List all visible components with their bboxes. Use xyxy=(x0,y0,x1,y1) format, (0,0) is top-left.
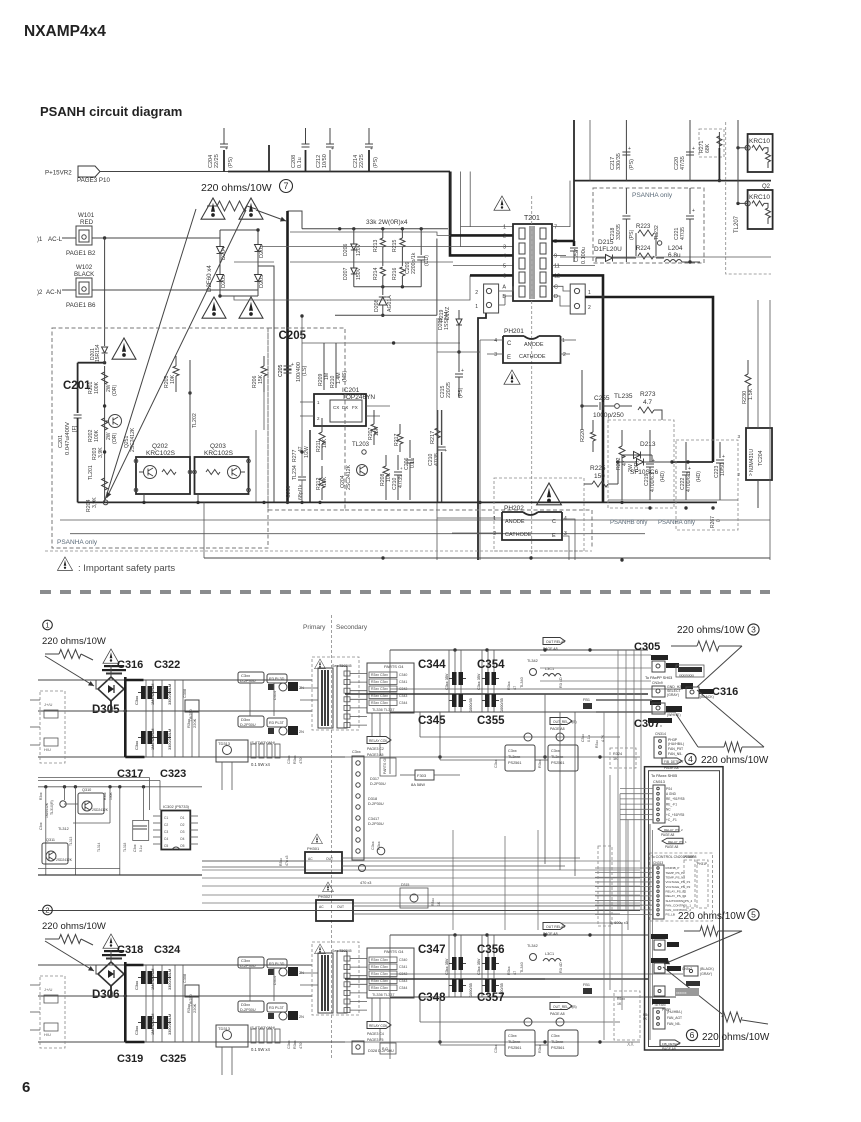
svg-text:1000/35: 1000/35 xyxy=(469,698,473,712)
svg-text:W102: W102 xyxy=(76,264,93,271)
svg-text:(BLACK): (BLACK) xyxy=(700,967,714,971)
svg-text:TEMP_PS_N2: TEMP_PS_N2 xyxy=(666,876,686,880)
svg-text:68p/1k: 68p/1k xyxy=(298,484,304,500)
warning triangle xyxy=(103,649,119,663)
wire diagonal down xyxy=(663,967,722,1014)
svg-text:TL201: TL201 xyxy=(88,465,94,480)
svg-text:RED: RED xyxy=(80,219,94,226)
capacitor C221 47/35 xyxy=(689,188,691,214)
wire bridge top xyxy=(220,229,258,231)
wire bus upper xyxy=(38,679,312,681)
wire parts box drops xyxy=(371,998,373,1025)
svg-text:Q202: Q202 xyxy=(152,443,168,450)
wire column pair xyxy=(437,410,439,502)
wire feeder horizontals xyxy=(560,922,622,924)
transistor TL310 xyxy=(60,801,66,807)
svg-text:PAGE3 F5: PAGE3 F5 xyxy=(367,1038,384,1042)
capacitor bank secondary 2 xyxy=(452,979,457,992)
resistor 220 ohms channel 1 xyxy=(59,650,81,659)
wire vertical xyxy=(581,370,583,406)
flag OUT_RELAY xyxy=(543,923,565,930)
warning triangle transformer xyxy=(315,944,326,954)
svg-text:4: 4 xyxy=(494,338,497,344)
svg-text:D-2P30U: D-2P30U xyxy=(368,802,384,806)
svg-text:TD313: TD313 xyxy=(218,741,231,746)
svg-text:1000/35: 1000/35 xyxy=(469,983,473,997)
svg-text:2SD2412K: 2SD2412K xyxy=(56,858,73,862)
svg-text:7: 7 xyxy=(554,225,557,231)
connector To PS upper xyxy=(651,934,668,939)
svg-text:D3xx: D3xx xyxy=(241,1002,250,1007)
wire bus lower xyxy=(38,756,345,758)
svg-text:(HU/HB/L): (HU/HB/L) xyxy=(668,742,684,746)
svg-text:220 ohms/10W: 220 ohms/10W xyxy=(42,636,106,647)
svg-text:C348: C348 xyxy=(418,992,446,1004)
warning triangle xyxy=(239,198,263,219)
svg-text:TL235: TL235 xyxy=(614,393,633,400)
svg-text:47u x3: 47u x3 xyxy=(285,855,289,866)
wire secondary riser xyxy=(389,650,391,712)
svg-text:(PS): (PS) xyxy=(228,157,234,168)
svg-text:1: 1 xyxy=(45,621,49,630)
wire driver rails xyxy=(440,1044,505,1046)
svg-text:TL3xxx: TL3xxx xyxy=(551,755,563,759)
svg-text:TD313: TD313 xyxy=(218,1026,231,1031)
svg-text:R3 4D: R3 4D xyxy=(559,677,563,688)
svg-text:PAGE A8: PAGE A8 xyxy=(665,845,678,849)
svg-text:+: + xyxy=(692,208,695,214)
svg-text:D-2P30U: D-2P30U xyxy=(370,782,386,786)
svg-text:(HD): (HD) xyxy=(660,471,666,482)
svg-text:TL3xxx: TL3xxx xyxy=(551,1040,563,1044)
svg-text:C317: C317 xyxy=(117,768,143,780)
wire node xyxy=(437,351,480,353)
svg-text:(HD): (HD) xyxy=(696,471,702,482)
connector A-B left xyxy=(484,284,499,313)
warning triangle PH302 xyxy=(323,882,334,892)
svg-text:E: E xyxy=(552,533,556,539)
svg-text:220 ohms/10W: 220 ohms/10W xyxy=(702,1032,770,1043)
svg-text:2SC2412K: 2SC2412K xyxy=(130,427,136,452)
svg-text:C3: C3 xyxy=(164,830,168,834)
transistor TL342 xyxy=(530,954,537,961)
wire bus middle xyxy=(38,995,312,997)
svg-text:C3xx 35V: C3xx 35V xyxy=(477,673,481,690)
svg-text:9: 9 xyxy=(554,253,557,259)
left dashed box xyxy=(40,976,65,1048)
svg-text:120V: 120V xyxy=(356,243,362,256)
wire thick C201 top xyxy=(78,362,105,364)
svg-text:R3xx C3xx: R3xx C3xx xyxy=(371,986,388,990)
wire D213 out thick xyxy=(672,461,713,463)
svg-text:W101: W101 xyxy=(78,212,95,219)
svg-text:RE_-F1: RE_-F1 xyxy=(666,802,677,806)
svg-text:R214: R214 xyxy=(373,267,379,280)
svg-text:C3xx: C3xx xyxy=(581,734,585,742)
svg-text:C3xx: C3xx xyxy=(134,741,139,750)
svg-text:: Important safety parts: : Important safety parts xyxy=(78,563,175,574)
transistor block KRC10 upper xyxy=(748,134,773,172)
svg-text:C3xx 35V: C3xx 35V xyxy=(445,958,449,975)
svg-text:5K: 5K xyxy=(643,1017,648,1021)
ferrite FB1 xyxy=(583,703,592,709)
svg-text:R3xx: R3xx xyxy=(507,681,511,690)
svg-text:6: 6 xyxy=(503,273,506,279)
svg-text:Primary: Primary xyxy=(303,624,326,631)
svg-text:To PAxxx SH05: To PAxxx SH05 xyxy=(651,774,677,778)
dashed box PH31P xyxy=(697,860,708,908)
wire diagonal to C201 area xyxy=(105,209,196,500)
transformer windings xyxy=(318,668,333,728)
svg-text:2200p/1k: 2200p/1k xyxy=(411,252,417,274)
resistor array 0.1 5W x4 xyxy=(251,1029,256,1043)
node P+15VR2 flag xyxy=(78,166,100,177)
wire feeders left of box xyxy=(603,760,605,1040)
svg-text:0. 600u x3: 0. 600u x3 xyxy=(610,921,628,925)
svg-text:C201: C201 xyxy=(58,435,64,448)
svg-text:4: 4 xyxy=(688,754,693,764)
svg-text:C325: C325 xyxy=(160,1053,186,1065)
svg-text:R3xx C3xx: R3xx C3xx xyxy=(371,687,388,691)
svg-text:4.7: 4.7 xyxy=(643,399,652,406)
svg-text:R273: R273 xyxy=(640,391,656,398)
svg-text:C341: C341 xyxy=(399,965,407,969)
svg-text:220 ohms/10W: 220 ohms/10W xyxy=(42,921,106,932)
wire primary net 4 xyxy=(234,275,470,300)
svg-text:330/35: 330/35 xyxy=(616,224,622,240)
svg-text:AC-L: AC-L xyxy=(48,236,63,243)
svg-text:4.7K: 4.7K xyxy=(601,734,605,742)
wire B pin xyxy=(499,304,505,306)
wire driver rails xyxy=(440,759,505,761)
svg-text:C: C xyxy=(507,341,512,347)
dashed box lower left xyxy=(614,991,640,1040)
resistor 220 ohms zigzag xyxy=(217,201,247,211)
label To PA SH04 xyxy=(648,718,672,723)
svg-text:C3xx: C3xx xyxy=(551,1034,560,1038)
arrow to rectifier xyxy=(45,941,94,971)
wire control verticals xyxy=(45,787,47,875)
driver block right xyxy=(556,733,564,741)
svg-text:R3xx: R3xx xyxy=(431,898,435,906)
svg-text:FAN_P5T: FAN_P5T xyxy=(668,747,684,751)
wire bridge tap to transformer nets xyxy=(234,261,274,263)
wire control rails xyxy=(38,777,150,779)
transistor block Q310 xyxy=(78,793,104,814)
svg-text:D315: D315 xyxy=(401,883,409,887)
svg-text:+: + xyxy=(688,466,691,472)
wire right verticals from page top xyxy=(573,120,575,241)
svg-text:RELAY_PS_P4: RELAY_PS_P4 xyxy=(666,894,687,898)
svg-text:O4: O4 xyxy=(180,837,185,841)
driver block left xyxy=(524,1018,532,1026)
transistor upper xyxy=(279,683,287,691)
svg-text:C316: C316 xyxy=(117,659,143,671)
flag RELAY_PS_1 xyxy=(662,838,683,844)
svg-text:C3xx: C3xx xyxy=(241,958,250,963)
wire CN513 feeders xyxy=(619,794,621,910)
resistor 220 ohms channel 2 xyxy=(59,935,81,944)
wire thick into pin6 xyxy=(470,274,513,277)
svg-text:ANODE: ANODE xyxy=(505,519,525,525)
svg-text:C3xx: C3xx xyxy=(134,696,139,705)
svg-text:68K: 68K xyxy=(705,143,711,153)
warning triangle small safety note xyxy=(57,557,72,570)
wire thick R271 to bus xyxy=(718,148,720,181)
svg-text:+: + xyxy=(692,146,695,152)
svg-text:R3xx: R3xx xyxy=(39,792,43,800)
wire left vertical xyxy=(436,318,438,560)
block PARTS G4 xyxy=(367,948,414,998)
svg-text:0.1 5W x4: 0.1 5W x4 xyxy=(251,1047,271,1052)
svg-text:IC302 (P5733): IC302 (P5733) xyxy=(163,804,190,809)
svg-text:TL342: TL342 xyxy=(527,944,538,948)
wire cap bank risers xyxy=(448,650,450,712)
block main PS connector box outer xyxy=(645,767,724,1050)
svg-text:O1: O1 xyxy=(180,816,185,820)
capacitor C217 330/35 xyxy=(625,120,627,181)
svg-text:PS2561: PS2561 xyxy=(508,761,522,765)
svg-text:0.1u: 0.1u xyxy=(139,845,143,852)
wire box bottom rails xyxy=(60,519,262,521)
dashed box feeder xyxy=(598,846,612,926)
wire right verticals xyxy=(757,300,759,428)
svg-text:C347: C347 xyxy=(418,944,446,956)
svg-text:C316: C316 xyxy=(712,686,738,698)
dashed box around PH202 xyxy=(494,478,584,551)
connector To PA flags C305 xyxy=(651,655,668,660)
svg-text:10K: 10K xyxy=(170,374,176,384)
svg-text:C3xx: C3xx xyxy=(494,1044,498,1053)
svg-text:C3xx: C3xx xyxy=(134,981,139,990)
capacitor bank row1 xyxy=(141,686,146,699)
svg-text:)1: )1 xyxy=(37,237,43,243)
svg-text:D215: D215 xyxy=(598,239,614,246)
wire secondary bus E xyxy=(345,756,640,758)
wire R211 net thick xyxy=(309,430,311,502)
wire bridge bottom xyxy=(220,295,258,297)
svg-text:0.047u/400V: 0.047u/400V xyxy=(65,422,71,455)
dashed box PSANHA only left xyxy=(52,328,268,548)
svg-text:1000/35: 1000/35 xyxy=(500,698,504,712)
transformer pin column xyxy=(337,666,347,728)
svg-text:PAGE A8: PAGE A8 xyxy=(543,932,558,936)
capacitor C204 22/25 xyxy=(223,150,225,172)
svg-text:C3xx: C3xx xyxy=(551,749,560,753)
svg-text:)2: )2 xyxy=(37,290,43,296)
svg-text:FAN_N5-: FAN_N5- xyxy=(668,752,683,756)
svg-text:3: 3 xyxy=(503,245,506,251)
svg-text:8A 58W: 8A 58W xyxy=(411,782,425,787)
svg-text:R3xx C3xx: R3xx C3xx xyxy=(371,680,388,684)
node circled 1 xyxy=(43,620,53,630)
svg-text:RELAY_PS_P2: RELAY_PS_P2 xyxy=(666,889,687,893)
svg-text:7: 7 xyxy=(283,181,288,191)
wire thick from connector down xyxy=(478,313,486,560)
svg-text:+: + xyxy=(331,146,334,152)
svg-text:R3xx C3xx: R3xx C3xx xyxy=(371,701,388,705)
transistor TL316 mid xyxy=(377,847,385,855)
svg-text:0: 0 xyxy=(716,519,722,522)
svg-text:PS2561: PS2561 xyxy=(551,761,565,765)
svg-text:470: 470 xyxy=(299,758,303,764)
svg-text:TC204: TC204 xyxy=(758,450,764,466)
node circled 6 xyxy=(686,1029,697,1040)
wire secondary bus A xyxy=(390,649,648,651)
wire snubber bottom xyxy=(656,257,664,259)
resistor 220 ohms no3 xyxy=(671,645,697,647)
svg-text:J+/U: J+/U xyxy=(44,987,52,992)
node circled 2 xyxy=(43,905,53,915)
svg-text:0.1u: 0.1u xyxy=(297,157,303,168)
wire channel2 feed xyxy=(38,910,640,912)
svg-text:J+/U: J+/U xyxy=(44,702,52,707)
svg-text:PARTS G4: PARTS G4 xyxy=(384,664,404,669)
fuse label block xyxy=(104,950,124,952)
svg-text:2: 2 xyxy=(563,352,566,358)
wire secondary riser xyxy=(389,935,391,997)
svg-text:O3: O3 xyxy=(180,830,185,834)
svg-text:100K: 100K xyxy=(109,791,113,800)
wire entry stubs right column top xyxy=(540,654,651,656)
transformer windings xyxy=(318,953,333,1013)
svg-text:1: 1 xyxy=(503,225,506,231)
svg-text:C3xx: C3xx xyxy=(133,844,137,852)
rectifier D305 xyxy=(98,677,124,701)
wire thick rectifier loop xyxy=(110,950,112,962)
svg-text:C319: C319 xyxy=(117,1053,143,1065)
svg-text:AC: AC xyxy=(319,905,324,909)
svg-text:6: 6 xyxy=(22,1079,30,1096)
svg-text:R324: R324 xyxy=(613,752,622,756)
svg-text:D-2P30U: D-2P30U xyxy=(240,679,256,683)
junctions bottom xyxy=(684,506,687,509)
svg-text:47/35: 47/35 xyxy=(680,156,686,170)
svg-text:TL342: TL342 xyxy=(527,659,538,663)
svg-text:TL207: TL207 xyxy=(734,215,740,233)
dashed box To CONTROL xyxy=(649,853,712,921)
svg-text:C318: C318 xyxy=(117,944,143,956)
warning triangle xyxy=(201,198,225,219)
svg-text:C5: C5 xyxy=(164,844,168,848)
svg-text:D328 D-2P30U: D328 D-2P30U xyxy=(368,1049,394,1053)
svg-text:RELAY COIL L: RELAY COIL L xyxy=(369,739,391,743)
svg-text:ANODE: ANODE xyxy=(524,342,544,348)
svg-text:47: 47 xyxy=(513,971,517,975)
svg-text:D2F60 x4: D2F60 x4 xyxy=(206,265,213,292)
svg-text:C308: C308 xyxy=(183,974,187,983)
svg-text:CN313: CN313 xyxy=(653,861,663,865)
svg-text:C356: C356 xyxy=(477,944,505,956)
svg-text:D317: D317 xyxy=(370,777,379,781)
svg-text:22/25: 22/25 xyxy=(359,154,365,168)
svg-text:PARTS G!: PARTS G! xyxy=(383,758,387,774)
svg-text:3: 3 xyxy=(737,434,740,439)
wire top right bus xyxy=(574,180,771,182)
svg-text:1: 1 xyxy=(588,290,591,296)
wire D pin xyxy=(552,296,570,306)
block main PS connector box inner xyxy=(649,771,720,1047)
optocoupler PH302 xyxy=(316,900,353,921)
svg-text:C3xx: C3xx xyxy=(352,750,361,754)
svg-text:C255: C255 xyxy=(594,395,610,402)
svg-text:PAGE A8: PAGE A8 xyxy=(550,727,565,731)
wire primary net 3 xyxy=(290,261,453,263)
wire thick bus to right xyxy=(585,297,713,462)
svg-text:D305: D305 xyxy=(92,704,120,716)
svg-text:C357: C357 xyxy=(477,992,505,1004)
svg-text:O2: O2 xyxy=(180,823,185,827)
wire pin8 thick to C257 xyxy=(552,240,574,243)
flag OUT_RELAY xyxy=(543,638,565,645)
IC IC302 P5733 xyxy=(161,811,190,850)
transformer T302 dashed outline xyxy=(312,942,359,1015)
warning triangle transformer xyxy=(315,659,326,669)
IC TC204 NJM431U xyxy=(746,428,772,480)
capacitor bank row2 xyxy=(141,1016,146,1029)
transformer T302 dashed outline xyxy=(312,657,359,730)
svg-text:R3xx: R3xx xyxy=(595,740,599,748)
svg-text:(GRAY): (GRAY) xyxy=(700,972,712,976)
flag RELAY_COIL ch2 xyxy=(367,1022,391,1029)
svg-text:Q311: Q311 xyxy=(46,838,55,842)
svg-text:R3xx C3xx: R3xx C3xx xyxy=(371,958,388,962)
transistor lower xyxy=(279,727,287,735)
svg-text:+: + xyxy=(628,146,631,152)
svg-text:220 ohms/10W: 220 ohms/10W xyxy=(678,911,746,922)
svg-text:TL3xxx: TL3xxx xyxy=(508,755,520,759)
wire parts box drops xyxy=(371,713,373,740)
svg-text:C3xx 35V: C3xx 35V xyxy=(445,673,449,690)
connector strip CN ch2 xyxy=(352,1041,364,1054)
svg-text:SHUTDOWN_PS_4: SHUTDOWN_PS_4 xyxy=(666,899,693,903)
relay driver box lower xyxy=(238,716,264,727)
svg-text:R3 4D: R3 4D xyxy=(559,962,563,973)
svg-text:(CD): (CD) xyxy=(424,255,430,266)
wire into pin3 xyxy=(461,246,514,248)
dashed box C205 sub xyxy=(268,328,345,510)
svg-text:R3 PL3T: R3 PL3T xyxy=(269,1006,285,1010)
svg-text:CN513: CN513 xyxy=(653,780,665,784)
svg-text:22/25: 22/25 xyxy=(214,154,220,168)
svg-text:3,9K: 3,9K xyxy=(92,497,98,508)
svg-text:TEMP_PS_P2: TEMP_PS_P2 xyxy=(666,871,686,875)
connector To PS mid xyxy=(651,958,668,963)
svg-text:C3xx: C3xx xyxy=(508,1034,517,1038)
svg-text:TL340: TL340 xyxy=(520,962,524,973)
svg-text:D207: D207 xyxy=(343,267,349,280)
wire secondary bus D xyxy=(420,1021,620,1023)
svg-text:R3xx: R3xx xyxy=(103,792,107,800)
svg-text:D: D xyxy=(554,294,558,300)
wire bundle verticals mid xyxy=(452,830,454,930)
svg-text:C344: C344 xyxy=(399,701,407,705)
wire pin9 xyxy=(552,254,566,256)
svg-text:3300/200LM: 3300/200LM xyxy=(168,729,172,750)
warning triangle PH301 xyxy=(312,834,323,844)
svg-text:47/35: 47/35 xyxy=(680,227,686,240)
svg-text:FX: FX xyxy=(352,405,358,410)
wire secondary bus B xyxy=(345,693,648,695)
svg-text:R3xx C3xx: R3xx C3xx xyxy=(371,673,388,677)
wire rail riser xyxy=(203,502,205,558)
svg-text:4: 4 xyxy=(503,253,506,259)
wire mid rail xyxy=(302,342,460,344)
dashed region right xyxy=(726,122,771,274)
svg-text:R220: R220 xyxy=(580,429,586,442)
svg-text:2: 2 xyxy=(737,472,740,477)
svg-text:NXAMP4x4: NXAMP4x4 xyxy=(24,23,106,40)
